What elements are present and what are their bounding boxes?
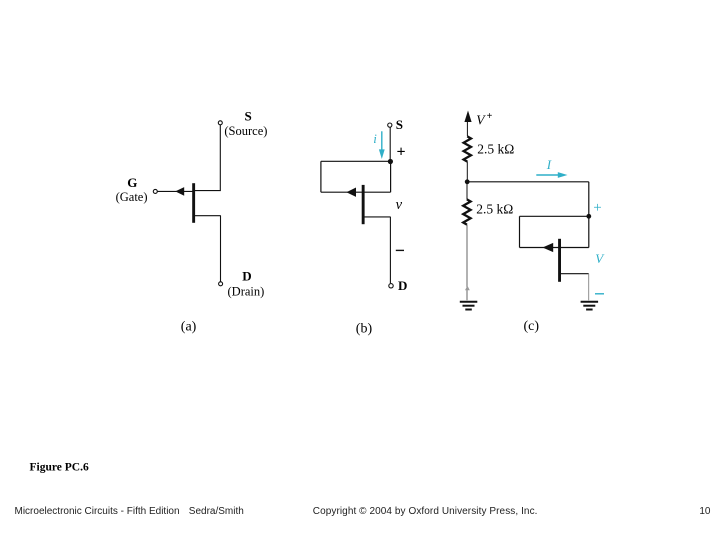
svg-text:D: D: [398, 278, 407, 293]
svg-text:Sedra/Smith: Sedra/Smith: [189, 506, 244, 517]
wire loop left vertical: [519, 216, 521, 247]
svg-text:+: +: [593, 200, 601, 216]
svg-text:S: S: [245, 108, 252, 123]
terminal S: [388, 123, 392, 127]
svg-text:i: i: [373, 131, 377, 146]
terminal S: [218, 121, 222, 125]
wire drain horizontal: [364, 216, 390, 218]
terminal G: [153, 189, 157, 193]
wire supply vertical: [466, 121, 468, 136]
transistor Q JFET gate arrow: [543, 243, 554, 252]
transistor Q JFET gate arrow: [346, 188, 356, 197]
wire right vertical to source: [588, 216, 590, 247]
wire right vertical: [390, 162, 392, 193]
svg-text:(Gate): (Gate): [116, 190, 148, 204]
transistor Q JFET channel bar: [362, 185, 365, 224]
svg-text:(a): (a): [181, 320, 197, 335]
wire drain horizontal: [561, 273, 589, 275]
transistor Q JFET gate arrow: [175, 187, 184, 196]
wire gate-source horizontal: [520, 247, 589, 249]
ground left: [460, 302, 478, 310]
label minus cyan: [595, 293, 604, 295]
svg-text:(b): (b): [356, 322, 373, 337]
svg-text:D: D: [242, 269, 251, 284]
transistor Q JFET channel bar: [558, 239, 561, 282]
wire gate-source horizontal: [321, 191, 391, 193]
svg-text:Microelectronic Circuits - Fif: Microelectronic Circuits - Fifth Edition: [15, 506, 180, 517]
terminal D: [219, 282, 223, 286]
resistor R2: [463, 199, 470, 224]
svg-text:Copyright © 2004 by Oxford Uni: Copyright © 2004 by Oxford University Pr…: [313, 506, 538, 517]
wire R2 to ground: [466, 225, 468, 301]
ground right: [581, 302, 599, 310]
node junction 1: [465, 179, 470, 184]
node junction: [388, 159, 393, 164]
wire node to R2: [466, 182, 468, 200]
svg-text:S: S: [396, 117, 403, 132]
wire top horizontal: [321, 160, 391, 162]
svg-text:+: +: [487, 111, 493, 122]
node junction 2: [586, 214, 591, 219]
faint arrow mark on ground wire: [465, 286, 470, 291]
resistor R1: [464, 136, 471, 161]
transistor Q JFET channel bar: [192, 183, 195, 223]
svg-text:10: 10: [699, 506, 711, 517]
svg-text:G: G: [127, 175, 137, 190]
terminal D: [389, 284, 393, 288]
svg-text:2.5 kΩ: 2.5 kΩ: [477, 142, 514, 157]
wire drain horizontal: [195, 215, 221, 217]
wire S vertical: [389, 127, 391, 161]
wire S vertical: [219, 125, 221, 191]
svg-text:(c): (c): [524, 319, 540, 334]
wire source horizontal: [195, 190, 221, 192]
wire D vertical: [220, 216, 222, 282]
svg-text:I: I: [546, 157, 552, 172]
svg-text:(Source): (Source): [224, 124, 267, 138]
wire R1 to node: [466, 161, 468, 181]
wire loop horizontal: [520, 215, 589, 217]
svg-text:v: v: [396, 197, 403, 213]
supply arrow V+: [464, 111, 471, 123]
svg-text:2.5 kΩ: 2.5 kΩ: [476, 202, 513, 217]
wire top horizontal: [467, 181, 589, 183]
svg-text:(Drain): (Drain): [228, 284, 265, 298]
current arrow I: [536, 172, 567, 178]
wire left vertical: [320, 161, 322, 192]
current arrow i: [379, 131, 385, 159]
wire D vertical: [389, 217, 391, 283]
wire gate horizontal: [158, 190, 193, 192]
label minus: [396, 249, 404, 251]
wire right vertical: [588, 182, 590, 217]
wire drain vertical to ground: [588, 274, 590, 301]
svg-text:+: +: [396, 144, 405, 161]
svg-text:Figure PC.6: Figure PC.6: [30, 462, 89, 474]
